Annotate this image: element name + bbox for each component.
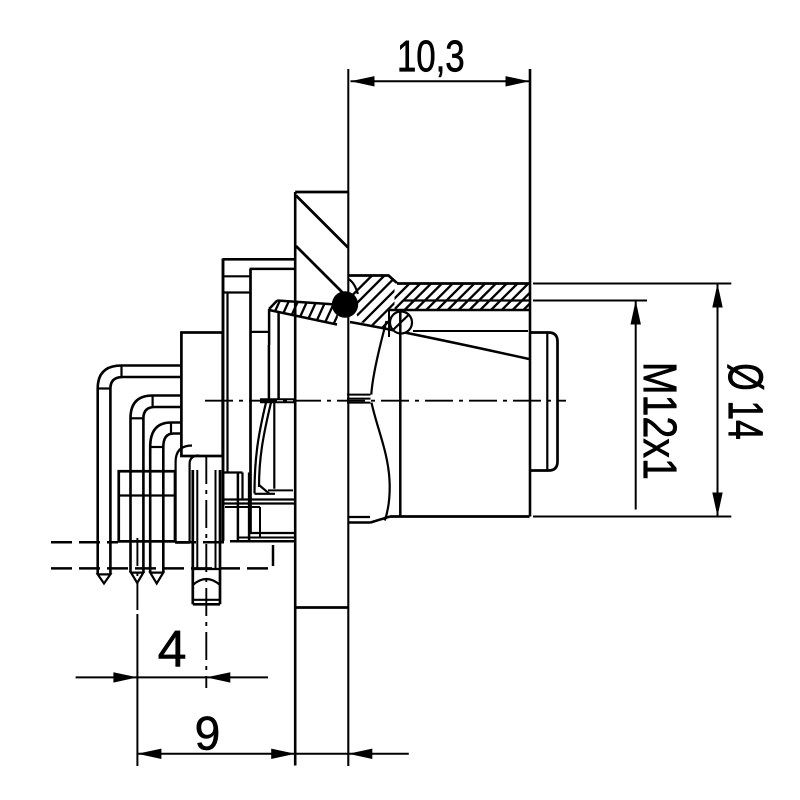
pin 3 solder tip: [150, 573, 163, 584]
sleeve contour lower bow: [372, 403, 390, 521]
insert molding rectangle: [181, 333, 222, 457]
insert sleeve edge: [399, 310, 402, 516]
hidden edges (dashed): [51, 542, 273, 568]
pin 1 solder tip: [98, 574, 111, 583]
barrel front edge: [529, 69, 532, 517]
contact elbow 3 (inner bent contact): [150, 423, 181, 573]
contact elbow 1 (outer bent contact): [98, 366, 182, 575]
housing lower steps: [222, 473, 295, 542]
pin 2 solder tip: [131, 573, 143, 583]
inner cone curve: [350, 322, 529, 359]
sealing ring (sectioned small circle): [390, 312, 412, 334]
central contact (solder cup): [193, 470, 220, 604]
dimension M12x1: [533, 301, 677, 510]
front end cap: [530, 333, 558, 471]
flange lip (sectioned, hatched): [266, 296, 356, 400]
sleeve slot lines: [347, 395, 371, 403]
centerline (axis): [205, 400, 566, 402]
housing rear profile (left stepped plates): [223, 258, 295, 541]
dimension 4: [76, 456, 268, 766]
O-ring seal (solid black): [332, 291, 358, 317]
dimension 10,3: [348, 40, 529, 192]
threaded barrel top band (sectioned, hatched): [383, 284, 550, 338]
coupling nut slope (sectioned, hatched): [318, 275, 436, 330]
sleeve foot (bottom): [348, 517, 529, 523]
dimension Ø 14: [533, 284, 764, 517]
panel (mounting wall, sectioned): [295, 192, 348, 766]
insulator block: [119, 471, 175, 541]
sleeve contour upper bow: [371, 321, 386, 395]
spring contact (socket side): [255, 403, 294, 494]
contact elbow 2 (middle bent contact): [131, 396, 182, 573]
contact elbow 4 (behind, short): [176, 446, 199, 543]
dimension 9: [137, 192, 408, 766]
